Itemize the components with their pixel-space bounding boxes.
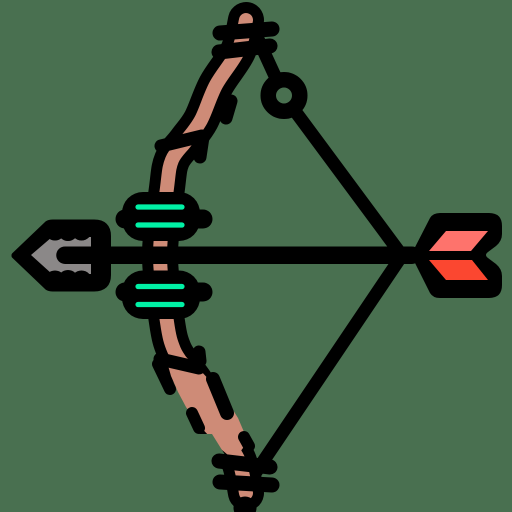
string ring	[268, 80, 300, 112]
arrowhead outline	[14, 222, 109, 289]
lower limb edge mark 2	[199, 352, 200, 361]
grip upper knob bar	[125, 210, 203, 229]
grip lower wrap body	[122, 271, 200, 320]
top tip wrap bar 1	[220, 29, 272, 33]
grip lower green stripe 1	[138, 284, 182, 289]
lower limb right outline dash	[244, 437, 249, 446]
bottom tip wrap bar 2	[219, 461, 270, 467]
lower limb right edge mark (m6)	[213, 379, 227, 413]
bowstring upper segment (tip to ring)	[252, 26, 278, 82]
bottom tip cap	[234, 497, 257, 512]
upper limb edge mark 2	[200, 137, 203, 157]
lower limb left outline dash 1	[158, 364, 170, 389]
top tip wrap bar 2	[219, 46, 270, 52]
grip lower knob bar	[125, 283, 203, 302]
arrowhead gray fill	[31, 237, 91, 274]
bow stave outline (black)	[160, 20, 246, 493]
upper limb cross mark	[161, 136, 202, 146]
grip upper wrap body	[122, 192, 200, 241]
lower limb left outline gap (background patch)	[198, 434, 227, 459]
arrowhead top bumps	[45, 220, 66, 241]
bow stave wood core (salmon)	[160, 20, 246, 493]
bowstring middle segment (ring to nock)	[294, 109, 403, 256]
bowstring lower segment (bottom tip to nock)	[252, 256, 402, 479]
upper limb edge mark	[226, 101, 231, 118]
grip upper green stripe 2	[138, 222, 182, 227]
fletching top vane (light red)	[429, 231, 488, 251]
lower knee wood flare (salmon)	[165, 355, 246, 455]
grip lower green stripe 2	[138, 302, 182, 307]
bottom tip wrap bar 1	[220, 482, 272, 485]
lower limb cross mark	[160, 359, 199, 368]
lower limb left outline dash 2	[192, 413, 199, 428]
fletching outline	[411, 213, 502, 298]
grip upper green stripe 1	[138, 204, 182, 209]
arrow shaft	[65, 246, 412, 264]
fletching bottom vane (red)	[429, 260, 488, 280]
arrowhead bottom bumps	[45, 271, 66, 292]
